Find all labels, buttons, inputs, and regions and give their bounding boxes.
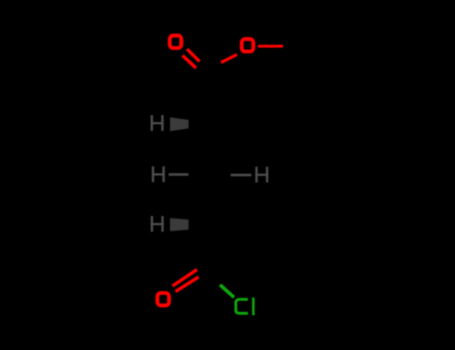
chlorine Cl label: letter l	[252, 298, 255, 316]
wire: C5-Cl bond (Cl-side half, green)	[220, 285, 234, 298]
wedge bond C4-H (H-side half, gray)	[170, 218, 189, 231]
ester oxygen O	[242, 39, 254, 51]
wedge bond C2-H (H-side half, gray)	[170, 117, 189, 131]
wire: O-CH3 bond (O-side half, red)	[258, 45, 283, 48]
wire: C1-O ester single bond (O-side half, red)	[221, 55, 237, 63]
chlorine Cl label: letter C	[236, 299, 248, 313]
H on C3 (left)	[152, 166, 165, 182]
wire: ester C=O double bond upper line (O-side half, red)	[187, 49, 200, 62]
H on C4 (bottom stereocenter)	[151, 216, 164, 232]
carbonyl oxygen O (ester C=O)	[170, 36, 182, 48]
wire: ester C=O double bond lower line (O-side half, red)	[183, 56, 197, 69]
H on C2 (top stereocenter)	[151, 115, 164, 131]
wire: C5=O double bond lower line (O-side half, red)	[176, 277, 199, 292]
acyl oxygen O (COCl C=O)	[157, 293, 169, 305]
wire: C3-H left bond (H-side half, gray)	[169, 173, 189, 176]
H on C3 (right)	[255, 167, 268, 183]
wire: C3-H right bond (H-side half, gray)	[231, 174, 252, 177]
wire: C5=O double bond upper line (O-side half, red)	[173, 270, 198, 287]
